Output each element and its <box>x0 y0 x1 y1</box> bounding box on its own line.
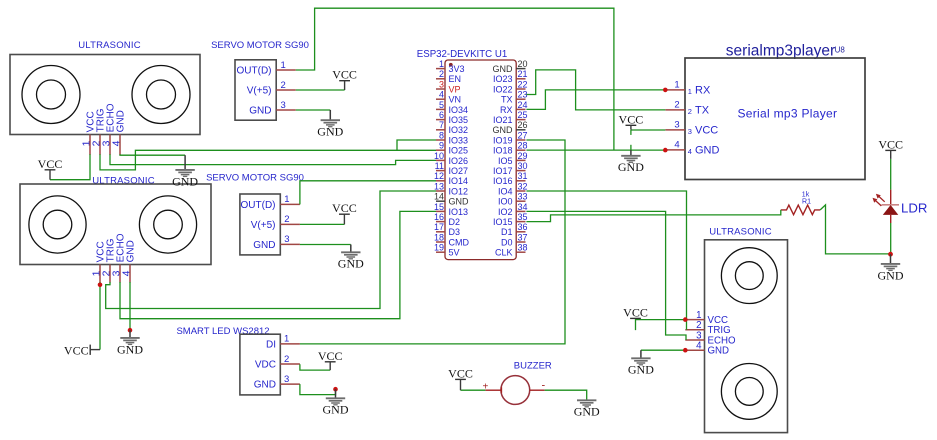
svg-text:EN: EN <box>449 74 462 84</box>
svg-text:GND: GND <box>117 342 143 356</box>
svg-text:4: 4 <box>121 270 133 276</box>
wire VCC to LDR anode <box>890 159 892 190</box>
svg-text:33: 33 <box>518 192 528 202</box>
svg-text:IO16: IO16 <box>493 176 513 186</box>
svg-text:30: 30 <box>518 161 528 171</box>
chip U1 left pin 3 stub <box>436 88 445 90</box>
power flag VCC at (630.9,129.7) <box>619 112 644 129</box>
svg-text:GND: GND <box>878 268 904 282</box>
svg-text:VCC: VCC <box>619 112 644 126</box>
wire stub below mp3 VCC flag <box>630 130 632 135</box>
power flag VCC at (890.7,158.9) <box>878 137 903 159</box>
ultrasonic sensor module 2 body <box>20 184 211 265</box>
junction dot mp3 pin4 <box>663 148 668 153</box>
svg-text:IO22: IO22 <box>493 84 513 94</box>
wire servo1 GND <box>296 109 331 111</box>
svg-text:GND: GND <box>126 240 137 262</box>
svg-text:ULTRASONIC: ULTRASONIC <box>709 227 772 238</box>
svg-text:IO33: IO33 <box>449 135 469 145</box>
buzzer right lead <box>530 389 545 391</box>
svg-text:4: 4 <box>696 341 702 352</box>
servo 2 pin 2 stub <box>280 223 300 225</box>
ground at (640.9,350.2) <box>628 350 654 377</box>
svg-text:IO15: IO15 <box>493 217 513 227</box>
svg-text:ESP32-DEVKITC U1: ESP32-DEVKITC U1 <box>417 49 507 60</box>
svg-text:VCC: VCC <box>695 125 718 137</box>
chip U1 right pin 36 stub <box>516 231 525 233</box>
wire ultrasonic3 VCC flag to pin1 <box>636 320 686 331</box>
wire chip pin35 IO15 to resistor R1 <box>526 210 780 222</box>
chip U1 left pin 11 stub <box>436 170 445 172</box>
chip U1 right pin 34 stub <box>516 210 525 212</box>
chip U1 right pin 23 stub <box>516 98 525 100</box>
power flag VCC at (460.5,390.2) <box>448 366 473 390</box>
chip U1 left pin 1 stub <box>436 68 445 70</box>
chip U1 left pin 16 stub <box>436 221 445 223</box>
svg-text:4: 4 <box>111 140 123 146</box>
svg-text:VCC: VCC <box>332 68 357 82</box>
ultrasonic 2 left transducer <box>29 196 86 253</box>
servo 1 pin 3 stub <box>276 109 296 111</box>
ultrasonic 3 pin 4 stub <box>685 349 704 351</box>
svg-text:2: 2 <box>284 214 289 225</box>
wire LDR cathode to junction <box>890 223 892 254</box>
svg-text:8: 8 <box>439 130 444 140</box>
chip U1 left pin 8 stub <box>436 139 445 141</box>
svg-text:23: 23 <box>518 90 528 100</box>
ultrasonic 1 pin 1 stub <box>89 135 91 155</box>
svg-text:CLK: CLK <box>495 248 513 258</box>
chip U1 right pin 22 stub <box>516 88 525 90</box>
LDR arrow 2 <box>873 198 882 206</box>
svg-text:IO18: IO18 <box>493 146 513 156</box>
svg-text:IO5: IO5 <box>498 156 513 166</box>
junction dot ultrasonic2 pin1 <box>98 283 103 288</box>
LDR triangle <box>883 205 899 215</box>
svg-text:GND: GND <box>695 145 720 157</box>
chip U1 left pin 13 stub <box>436 190 445 192</box>
chip U1 right pin 21 stub <box>516 78 525 80</box>
chip U1 left pin 6 stub <box>436 119 445 121</box>
ultrasonic 2 pin 2 stub <box>109 265 111 283</box>
svg-text:GND: GND <box>493 64 514 74</box>
chip U1 left pin 2 stub <box>436 78 445 80</box>
svg-text:7: 7 <box>439 120 444 130</box>
chip U1 left pin 12 stub <box>436 180 445 182</box>
svg-text:VCC: VCC <box>878 137 903 151</box>
svg-text:2: 2 <box>281 80 286 91</box>
svg-text:3: 3 <box>674 120 679 131</box>
ultrasonic 3 pin 3 stub <box>685 339 704 341</box>
svg-text:3: 3 <box>688 127 692 136</box>
ground at (330.3,110) <box>317 110 343 139</box>
svg-text:IO27: IO27 <box>449 166 469 176</box>
mp3 player pin 3 stub <box>665 129 685 131</box>
svg-text:V(+5): V(+5) <box>247 85 272 96</box>
mp3 player pin 2 stub <box>665 109 685 111</box>
svg-text:5: 5 <box>439 100 444 110</box>
ultrasonic sensor module 3 body <box>705 240 788 433</box>
svg-text:21: 21 <box>518 69 528 79</box>
ground at (890.5,254.2) <box>878 254 904 282</box>
svg-text:32: 32 <box>518 181 528 191</box>
buzzer body circle <box>501 376 530 405</box>
svg-text:VCC: VCC <box>38 157 63 171</box>
wire smart LED VDC to VCC <box>300 364 330 370</box>
wire ultrasonic2 pin1 VCC down to flag <box>99 282 101 350</box>
LDR arrow 1 <box>876 194 885 202</box>
svg-text:22: 22 <box>518 79 528 89</box>
servo motor 1 body <box>235 60 276 120</box>
svg-text:IO2: IO2 <box>498 207 513 217</box>
wire servo2 OUT(D) to chip pin12 IO14 <box>300 181 436 205</box>
svg-text:37: 37 <box>518 232 528 242</box>
chip U1 left pin 19 stub <box>436 251 445 253</box>
svg-text:R1: R1 <box>802 199 811 206</box>
svg-text:GND: GND <box>323 403 349 417</box>
svg-text:U8: U8 <box>835 46 846 55</box>
svg-text:31: 31 <box>518 171 528 181</box>
ground at (630.9,150.1) <box>618 150 644 174</box>
ultrasonic 1 right transducer <box>132 66 190 124</box>
ultrasonic 3 bottom transducer <box>721 364 777 420</box>
servo 1 pin 1 stub <box>276 69 296 71</box>
chip U1 right pin 31 stub <box>516 180 525 182</box>
svg-text:IO4: IO4 <box>498 186 513 196</box>
svg-text:D1: D1 <box>501 227 513 237</box>
serial mp3 player body <box>685 58 865 180</box>
svg-text:9: 9 <box>439 141 444 151</box>
svg-text:27: 27 <box>518 130 528 140</box>
wire servo2 V(+5) to VCC <box>300 223 345 225</box>
svg-text:serialmp3player: serialmp3player <box>726 42 835 59</box>
svg-text:IO21: IO21 <box>493 115 513 125</box>
svg-text:1: 1 <box>284 194 289 205</box>
svg-text:D0: D0 <box>501 237 513 247</box>
svg-text:IO23: IO23 <box>493 74 513 84</box>
svg-text:VCC: VCC <box>64 344 89 358</box>
ground at (350.8,244.5) <box>338 245 364 271</box>
svg-text:3V3: 3V3 <box>449 64 465 74</box>
svg-text:2: 2 <box>688 107 692 116</box>
svg-text:GND: GND <box>249 105 271 116</box>
svg-text:ULTRASONIC: ULTRASONIC <box>78 40 141 51</box>
svg-text:VCC: VCC <box>623 305 648 319</box>
power flag VCC at (635.5,319.6) <box>623 305 648 319</box>
mp3 player pin 4 stub <box>665 149 685 151</box>
power flag VCC at (330.2,370.1) <box>318 349 343 370</box>
svg-text:15: 15 <box>434 202 444 212</box>
chip U1 left pin 10 stub <box>436 159 445 161</box>
svg-text:34: 34 <box>518 202 528 212</box>
LDR cathode bar <box>882 204 900 206</box>
svg-text:IO34: IO34 <box>449 105 469 115</box>
svg-text:3: 3 <box>284 234 289 245</box>
svg-text:BUZZER: BUZZER <box>514 360 552 371</box>
ultrasonic sensor module 1 body <box>10 55 200 135</box>
wire stub above mp3 GND <box>630 145 632 150</box>
wire buzzer right to GND <box>545 390 587 400</box>
ultrasonic 2 right transducer <box>139 196 196 253</box>
svg-text:GND: GND <box>449 197 470 207</box>
svg-text:1: 1 <box>284 334 289 345</box>
wire chip pin27 IO19 to smart LED DI <box>300 140 565 344</box>
svg-text:26: 26 <box>518 120 528 130</box>
chip U1 left pin 7 stub <box>436 129 445 131</box>
power flag VCC at (344.4,224.4) <box>332 201 357 224</box>
svg-text:IO0: IO0 <box>498 197 513 207</box>
smart LED pin 3 stub <box>280 383 300 385</box>
servo motor 2 body <box>240 194 280 255</box>
svg-text:5V: 5V <box>449 248 460 258</box>
svg-text:IO17: IO17 <box>493 166 513 176</box>
smart LED pin 2 stub <box>280 363 300 365</box>
wire ultrasonic1 pin3 ECHO to chip pin10 IO26 <box>110 154 436 164</box>
svg-text:GND: GND <box>116 110 127 132</box>
smart LED pin 1 stub <box>280 343 300 345</box>
svg-text:TX: TX <box>501 95 513 105</box>
svg-text:ULTRASONIC: ULTRASONIC <box>92 176 155 187</box>
wire servo1 V(+5) to VCC <box>296 89 345 91</box>
svg-text:GND: GND <box>618 160 644 174</box>
junction dot ultrasonic3 pin4 <box>683 348 688 353</box>
chip U1 right pin 27 stub <box>516 139 525 141</box>
wire buzzer left to VCC <box>461 389 486 391</box>
svg-text:VN: VN <box>449 95 462 105</box>
chip U1 left pin 17 stub <box>436 231 445 233</box>
svg-text:2: 2 <box>284 354 289 365</box>
ultrasonic 2 pin 4 stub <box>129 265 131 283</box>
power flag VCC at (344.6,90) <box>332 68 357 90</box>
wire resistor R1 to LED cathode node <box>820 205 890 254</box>
wire ultrasonic2 pin3 ECHO to chip pin15 IO13 <box>120 211 436 318</box>
chip U1 left pin 5 stub <box>436 108 445 110</box>
svg-text:GND: GND <box>253 240 275 251</box>
LDR bottom lead <box>890 215 892 223</box>
wire chip pin32 IO4 to ultrasonic3 TRIG <box>526 191 686 330</box>
ground at (335.5,389.2) <box>323 389 349 417</box>
chip U1 right pin 26 stub <box>516 129 525 131</box>
svg-text:17: 17 <box>434 222 444 232</box>
svg-text:IO13: IO13 <box>449 207 469 217</box>
mp3 player pin 1 stub <box>665 89 685 91</box>
svg-text:DI: DI <box>266 339 276 350</box>
svg-text:IO12: IO12 <box>449 186 469 196</box>
svg-text:OUT(D): OUT(D) <box>237 65 272 76</box>
wire smart LED GND <box>300 384 336 395</box>
svg-text:36: 36 <box>518 222 528 232</box>
buzzer plus terminal tick <box>501 387 503 393</box>
servo 1 pin 2 stub <box>276 89 296 91</box>
wire ultrasonic2 pin4 GND down <box>129 282 131 330</box>
LDR diode top lead <box>890 190 892 205</box>
ultrasonic 3 pin 1 stub <box>685 319 704 321</box>
ultrasonic 3 top transducer <box>721 248 777 304</box>
svg-text:OUT(D): OUT(D) <box>241 200 276 211</box>
ultrasonic 1 left transducer <box>22 66 80 124</box>
power flag VCC rotated (ultrasonic2) <box>64 344 100 358</box>
wire ultrasonic2 pin2 TRIG to chip pin13 IO12 <box>106 191 436 309</box>
ultrasonic 2 pin 3 stub <box>119 265 121 283</box>
svg-text:SMART LED WS2812: SMART LED WS2812 <box>176 326 269 337</box>
svg-text:-: - <box>541 379 545 391</box>
svg-text:SERVO MOTOR SG90: SERVO MOTOR SG90 <box>211 40 309 51</box>
chip U1 right pin 33 stub <box>516 200 525 202</box>
svg-text:2: 2 <box>439 69 444 79</box>
svg-text:3: 3 <box>439 79 444 89</box>
chip U1 right pin 30 stub <box>516 170 525 172</box>
wire chip pin28 IO18 to mp3 pin4 GND <box>526 149 665 151</box>
chip U1 right pin 38 stub <box>516 251 525 253</box>
wire ultrasonic3 pin4 GND <box>641 349 685 351</box>
svg-text:IO25: IO25 <box>449 146 469 156</box>
svg-text:28: 28 <box>518 141 528 151</box>
chip U1 right pin 37 stub <box>516 241 525 243</box>
svg-text:GND: GND <box>254 380 276 391</box>
chip U1 right pin 35 stub <box>516 221 525 223</box>
wire mp3 pin3 VCC <box>631 129 665 131</box>
wire servo2 GND <box>300 244 351 246</box>
svg-text:VP: VP <box>449 84 461 94</box>
ground at (130,330.2) <box>117 330 143 356</box>
svg-text:18: 18 <box>434 232 444 242</box>
chip U1 right pin 32 stub <box>516 190 525 192</box>
buzzer left lead <box>485 389 501 391</box>
svg-text:VCC: VCC <box>448 366 473 380</box>
svg-text:IO26: IO26 <box>449 156 469 166</box>
svg-text:10: 10 <box>434 151 444 161</box>
ultrasonic 1 pin 4 stub <box>119 135 121 155</box>
junction dot mp3 pin1 <box>663 88 668 93</box>
svg-text:IO32: IO32 <box>449 125 469 135</box>
svg-text:25: 25 <box>518 110 528 120</box>
ground at (185.1,155.2) <box>172 155 198 188</box>
svg-text:6: 6 <box>439 110 444 120</box>
power flag VCC at (50,179.7) <box>38 157 63 180</box>
wire ultrasonic1 pin4 GND <box>120 154 185 155</box>
wire servo1 OUT(D) top rail to chip pin28 IO18 net <box>296 8 614 150</box>
svg-text:4: 4 <box>674 140 679 151</box>
chip U1 left pin 18 stub <box>436 241 445 243</box>
svg-text:RX: RX <box>695 85 711 97</box>
svg-text:1: 1 <box>674 80 679 91</box>
svg-text:GND: GND <box>338 257 364 271</box>
svg-text:3: 3 <box>284 374 289 385</box>
chip U1 left pin 4 stub <box>436 98 445 100</box>
svg-text:20: 20 <box>518 59 528 69</box>
wire chip pin23 TX over-jog to mp3 pin2 TX <box>526 70 665 110</box>
chip U1 left pin 9 stub <box>436 149 445 151</box>
svg-text:IO14: IO14 <box>449 176 469 186</box>
svg-text:19: 19 <box>434 243 444 253</box>
svg-text:24: 24 <box>518 100 528 110</box>
svg-text:GND: GND <box>172 174 198 188</box>
chip U1 right pin 29 stub <box>516 159 525 161</box>
svg-text:CMD: CMD <box>449 237 470 247</box>
junction dot LDR cathode node <box>888 252 893 257</box>
svg-text:13: 13 <box>434 181 444 191</box>
junction dot ultrasonic2 pin4 <box>128 328 133 333</box>
svg-text:11: 11 <box>435 161 444 171</box>
ultrasonic 1 pin 3 stub <box>109 135 111 155</box>
svg-text:38: 38 <box>518 243 528 253</box>
svg-text:IO35: IO35 <box>449 115 469 125</box>
ultrasonic 3 pin 2 stub <box>685 329 704 331</box>
servo 2 pin 3 stub <box>280 243 300 245</box>
svg-text:Serial mp3 Player: Serial mp3 Player <box>737 107 837 121</box>
svg-text:29: 29 <box>518 151 528 161</box>
svg-text:VDC: VDC <box>255 359 276 370</box>
svg-text:1: 1 <box>281 60 286 71</box>
svg-text:RX: RX <box>500 105 513 115</box>
svg-text:VCC: VCC <box>332 201 357 215</box>
servo 2 pin 1 stub <box>280 203 300 205</box>
wire ultrasonic1 pin2 TRIG to chip pin9 IO25 <box>100 150 436 170</box>
chip U1 right pin 20 stub <box>516 68 525 70</box>
svg-text:3: 3 <box>281 100 286 111</box>
wire chip pin34 IO2 to ultrasonic3 ECHO <box>526 211 686 340</box>
svg-text:GND: GND <box>493 125 514 135</box>
junction dot ultrasonic3 pin1 <box>683 317 688 322</box>
wire chip pin24 RX to mp3 pin1 RX <box>526 90 665 110</box>
wire jog to chip pin8 IO33 <box>397 140 436 150</box>
svg-text:GND: GND <box>628 363 654 377</box>
chip U1 right pin 28 stub <box>516 149 525 151</box>
svg-text:VCC: VCC <box>318 349 343 363</box>
svg-text:GND: GND <box>574 405 600 419</box>
svg-text:1k: 1k <box>802 191 810 198</box>
svg-text:35: 35 <box>518 212 528 222</box>
svg-text:GND: GND <box>317 125 343 139</box>
chip U1 left pin 14 stub <box>436 200 445 202</box>
wire ultrasonic1 pin1 VCC down-left <box>50 154 90 180</box>
ultrasonic 1 pin 2 stub <box>99 135 101 155</box>
svg-text:1: 1 <box>439 59 444 69</box>
svg-text:IO19: IO19 <box>493 135 513 145</box>
svg-text:4: 4 <box>439 90 444 100</box>
svg-text:D2: D2 <box>449 217 461 227</box>
chip U1 right pin 25 stub <box>516 119 525 121</box>
ground at (586.7,399.9) <box>574 400 600 419</box>
svg-text:12: 12 <box>434 171 444 181</box>
svg-text:LDR: LDR <box>901 201 927 216</box>
smart LED body <box>240 334 280 395</box>
svg-text:GND: GND <box>708 346 730 357</box>
resistor R1 zigzag <box>781 205 820 215</box>
svg-text:V(+5): V(+5) <box>251 220 276 231</box>
svg-text:16: 16 <box>434 212 444 222</box>
svg-text:D3: D3 <box>449 227 461 237</box>
chip U1 right pin 24 stub <box>516 108 525 110</box>
chip ESP32 U1 body <box>445 60 516 260</box>
svg-text:4: 4 <box>688 147 692 156</box>
svg-text:1: 1 <box>688 87 692 96</box>
svg-text:2: 2 <box>674 100 679 111</box>
svg-text:TX: TX <box>695 105 710 117</box>
svg-text:14: 14 <box>434 192 444 202</box>
chip U1 left pin 15 stub <box>436 210 445 212</box>
chip U1 pin-1 marker dot <box>449 63 453 67</box>
junction dot smart LED GND <box>333 387 338 392</box>
svg-text:SERVO MOTOR SG90: SERVO MOTOR SG90 <box>206 172 304 183</box>
ultrasonic 2 pin 1 stub <box>99 265 101 283</box>
